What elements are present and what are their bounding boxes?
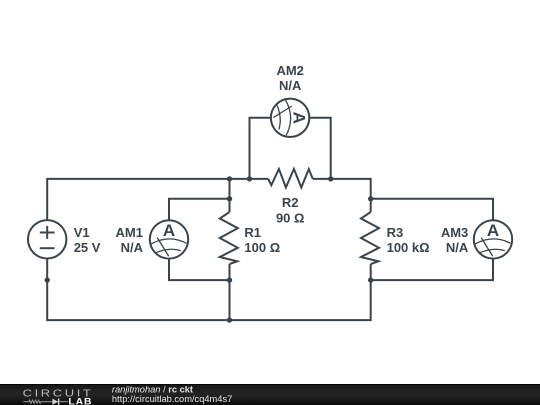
- svg-text:LAB: LAB: [68, 397, 92, 405]
- svg-text:R1: R1: [244, 225, 261, 240]
- node: V1 bottom wire joint: [45, 277, 50, 282]
- svg-text:100 kΩ: 100 kΩ: [387, 240, 430, 255]
- svg-text:A: A: [290, 112, 309, 124]
- node: AM3 top / R3 column: [368, 196, 373, 201]
- wire: AM3 bottom branch: [371, 239, 493, 280]
- ammeter AM3: [474, 220, 512, 258]
- node: main rail / R1 column: [227, 176, 232, 181]
- svg-text:V1: V1: [74, 225, 90, 240]
- svg-text:A: A: [163, 221, 175, 240]
- resistor R1 zigzag: [220, 212, 238, 264]
- resistor R2 zigzag: [268, 169, 313, 188]
- logo resistor zigzag: [23, 400, 52, 403]
- svg-text:AM2: AM2: [276, 63, 303, 78]
- svg-text:100 Ω: 100 Ω: [244, 240, 280, 255]
- footer bar: [0, 384, 540, 405]
- node: AM3 bottom / R3 column: [368, 277, 373, 282]
- wire: V1 top lead, up left rail, main top rail to R2 left terminal: [47, 179, 268, 239]
- node: main rail / AM2 right: [328, 176, 333, 181]
- wire: AM2 right branch: [290, 118, 331, 179]
- wire: main top rail from R2 right terminal, corner down to R3 top lead: [313, 179, 371, 212]
- svg-text:AM1: AM1: [116, 225, 143, 240]
- node: R1 column / bottom rail: [227, 317, 232, 322]
- wire: AM1 bottom branch: [169, 239, 230, 280]
- svg-text:N/A: N/A: [279, 78, 302, 93]
- logo diode: [52, 399, 58, 405]
- ammeter AM2 (rotated 90 deg): [271, 99, 309, 137]
- svg-text:http://circuitlab.com/cq4m4s7: http://circuitlab.com/cq4m4s7: [112, 394, 232, 404]
- svg-text:25 V: 25 V: [74, 240, 101, 255]
- junction dots: [45, 176, 374, 323]
- ammeter AM1: [150, 220, 188, 258]
- wire: AM1 top branch: [169, 199, 230, 240]
- resistor R3 zigzag: [361, 212, 379, 264]
- wire: R1 column lower lead to bottom rail: [229, 264, 231, 320]
- wire: R1 column upper lead: [229, 179, 231, 212]
- node: AM1 top / R1 column: [227, 196, 232, 201]
- svg-text:A: A: [487, 221, 499, 240]
- voltage source V1: [28, 220, 66, 258]
- wire: AM2 left branch: [250, 118, 291, 179]
- wire: AM3 top branch: [371, 199, 493, 240]
- svg-text:90 Ω: 90 Ω: [276, 211, 305, 226]
- svg-text:R2: R2: [282, 195, 299, 210]
- svg-text:N/A: N/A: [446, 240, 469, 255]
- svg-text:N/A: N/A: [121, 240, 144, 255]
- node: AM1 bottom / R1 column: [227, 277, 232, 282]
- wire: R3 bottom lead, bottom rail, left rail up to V1 bottom: [47, 239, 371, 320]
- svg-text:R3: R3: [387, 225, 404, 240]
- svg-text:AM3: AM3: [441, 225, 468, 240]
- node: main rail / AM2 left: [247, 176, 252, 181]
